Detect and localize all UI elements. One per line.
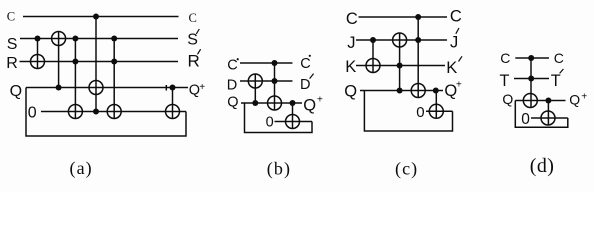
wire Q (a) <box>26 87 188 89</box>
control dot on R x114 (a) <box>111 59 117 65</box>
wire C (b) <box>240 62 293 64</box>
svg-text:(b): (b) <box>267 158 291 179</box>
svg-text:T: T <box>500 72 510 90</box>
wire Q (d) <box>515 100 565 102</box>
vertical wire gate4 C-0 (a) <box>95 17 97 112</box>
svg-text:+: + <box>317 95 323 106</box>
control dot on Q x292 (b) <box>290 100 296 106</box>
svg-text:0: 0 <box>521 111 530 128</box>
svg-text:0: 0 <box>416 104 424 121</box>
control dot on Q x399 (c) <box>397 88 403 94</box>
CNOT target on D (b) <box>248 74 262 88</box>
vertical wire gate1 S-R (a) <box>37 39 39 69</box>
vertical wire gate2 S-Q (a) <box>58 32 60 88</box>
wire C (a) <box>23 16 179 18</box>
svg-text:Q: Q <box>303 97 316 115</box>
prime mark K' (c) <box>459 56 463 61</box>
svg-text:K: K <box>345 58 356 76</box>
vertical wire gate4 Q-0 (c) <box>435 91 437 119</box>
svg-text:+: + <box>456 80 462 91</box>
control dot on T (d) <box>528 76 534 82</box>
svg-text:Q: Q <box>502 91 513 107</box>
prime mark D' (b) <box>310 74 314 79</box>
control dot on Q x172 (a) <box>170 85 176 91</box>
control dot on C (c) <box>415 14 421 20</box>
vertical wire gate3 S-0 (a) <box>74 39 76 119</box>
svg-text:+: + <box>199 82 205 93</box>
control dot on C (a) <box>93 14 99 20</box>
vertical wire gate1 D-Q (b) <box>254 74 256 103</box>
wire 0 (c) <box>426 110 453 112</box>
svg-text:(a): (a) <box>70 158 93 179</box>
prime mark S' (a) <box>196 29 199 34</box>
svg-text:0: 0 <box>28 104 37 121</box>
vertical wire gate2 Q-0 (d) <box>547 101 549 126</box>
CNOT target on 0 (b) <box>286 115 300 129</box>
svg-text:C: C <box>227 58 237 74</box>
vertical wire gate3 Q-0 (b) <box>292 103 294 129</box>
svg-text:C: C <box>300 56 310 72</box>
svg-text:Q: Q <box>344 83 357 101</box>
wire 0 (d) <box>531 117 568 119</box>
control dot on Q x435 (c) <box>433 88 439 94</box>
svg-text:K: K <box>446 59 457 77</box>
svg-text:C: C <box>189 11 197 25</box>
wire D (b) <box>240 80 293 82</box>
CNOT target on 0 (c) <box>429 104 443 118</box>
wire C (c) <box>359 16 448 18</box>
CNOT target on R (a) <box>31 55 45 69</box>
svg-text:(c): (c) <box>395 158 418 179</box>
vertical wire gate1 C-Q (d) <box>530 58 532 108</box>
svg-text:R: R <box>6 55 18 72</box>
vertical wire gate2 J-Q (c) <box>399 33 401 91</box>
control dot on C (d) <box>528 55 534 61</box>
prime dot C left (b) <box>237 58 239 60</box>
svg-text:Q: Q <box>10 83 22 100</box>
feedback loop wire (b) <box>245 103 313 133</box>
CNOT target on K (c) <box>366 59 380 73</box>
svg-text:C: C <box>346 10 358 28</box>
prime mark R' (a) <box>198 49 201 54</box>
prime dot C right (b) <box>309 55 311 57</box>
CNOT target on Q (d) <box>523 94 537 108</box>
wire K (c) <box>356 65 445 67</box>
svg-text:J: J <box>450 33 458 51</box>
svg-text:Q: Q <box>227 95 238 111</box>
control dot on J x418 (c) <box>415 37 421 43</box>
CNOT target on Q (c) <box>411 84 425 98</box>
wire Q (c) <box>360 90 443 92</box>
control dot on R x76 (a) <box>72 59 78 65</box>
svg-text:T: T <box>551 72 561 90</box>
feedback loop wire (a) <box>26 88 186 137</box>
svg-text:Q: Q <box>569 91 580 107</box>
svg-text:0: 0 <box>266 115 274 131</box>
control dot on Q x255 (b) <box>252 100 258 106</box>
svg-text:C: C <box>554 50 564 66</box>
vertical wire gate3 C-Q (c) <box>417 17 419 98</box>
vertical wire gate6 Q-0 (a) <box>172 88 174 119</box>
vertical wire gate1 J-K (c) <box>372 40 374 73</box>
control dot on S x114 (a) <box>111 36 117 42</box>
wire J (c) <box>356 39 447 41</box>
wire 0 (b) <box>275 121 313 123</box>
output tick on Q (a) <box>165 85 167 91</box>
CNOT target on S (a) <box>52 32 66 46</box>
wire T (d) <box>514 78 549 80</box>
svg-text:(d): (d) <box>530 155 555 177</box>
control dot on 0 x96 (a) <box>93 109 99 115</box>
control dot on Q x59 (a) <box>56 85 62 91</box>
feedback loop wire (d) <box>515 101 568 128</box>
CNOT target on 0 (d) <box>541 111 555 125</box>
control dot on K (c) <box>397 63 403 69</box>
CNOT target on 0 first (a) <box>68 105 82 119</box>
control dot on S x37 (a) <box>35 36 41 42</box>
svg-text:J: J <box>347 34 355 52</box>
CNOT target on J (c) <box>393 33 407 47</box>
svg-text:C: C <box>7 10 15 24</box>
svg-text:+: + <box>581 91 587 102</box>
vertical wire gate5 S-0 (a) <box>113 39 115 119</box>
feedback loop wire (c) <box>364 91 452 132</box>
wire 0 (a) <box>41 111 186 113</box>
CNOT target on 0 third (a) <box>166 105 180 119</box>
control dot on S x75 (a) <box>72 36 78 42</box>
CNOT target on Q (a) <box>89 81 103 95</box>
CNOT target on Q (b) <box>268 96 282 110</box>
control dot on J x373 (c) <box>370 37 376 43</box>
svg-text:D: D <box>227 78 237 94</box>
svg-text:C: C <box>450 7 462 25</box>
vertical wire gate2 C-Q (b) <box>274 63 276 110</box>
CNOT target on 0 second (a) <box>107 105 121 119</box>
control dot on Q (d) <box>545 98 551 104</box>
wire C (d) <box>515 57 549 59</box>
svg-text:C: C <box>500 50 510 66</box>
wire Q (b) <box>241 102 302 104</box>
svg-text:S: S <box>187 32 198 49</box>
svg-text:D: D <box>300 77 310 93</box>
wire R (a) <box>20 61 179 63</box>
prime mark J' (c) <box>456 28 459 34</box>
control dot on D (b) <box>272 78 278 84</box>
control dot on C (b) <box>272 60 278 66</box>
svg-text:S: S <box>7 36 18 53</box>
prime mark T' (d) <box>560 69 564 73</box>
wire S (a) <box>20 38 178 40</box>
